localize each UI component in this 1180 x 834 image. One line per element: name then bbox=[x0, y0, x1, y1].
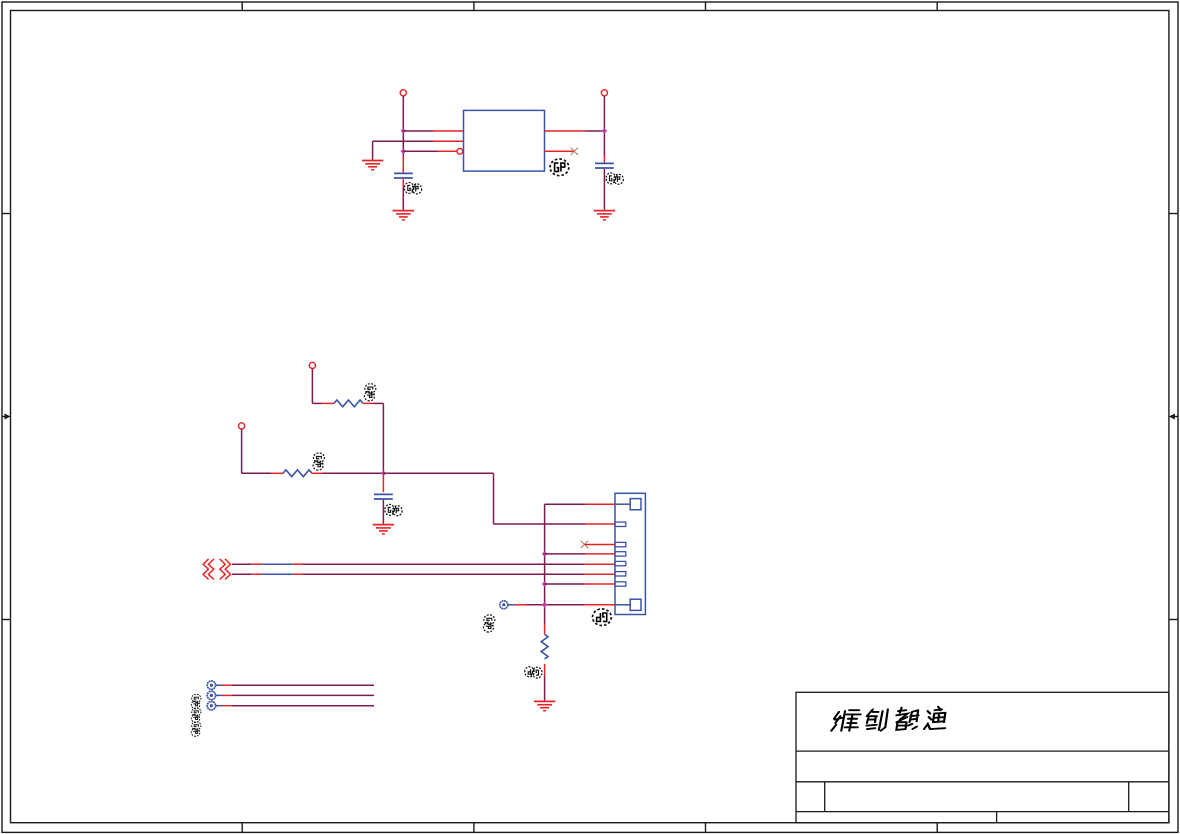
connector J1 bottom mounting pin bbox=[615, 599, 641, 610]
G/P marker of R1 bbox=[364, 384, 375, 401]
ground bbox=[373, 525, 394, 534]
test point TP3 bbox=[207, 702, 215, 710]
inverting pin bubble bbox=[457, 148, 463, 154]
GP marker of J1 (rotated) bbox=[593, 609, 612, 626]
capacitor C1 bbox=[394, 173, 413, 178]
company name text (CJK strokes) bbox=[831, 707, 948, 731]
G/P marker of TP4 bbox=[483, 615, 494, 632]
ground bbox=[393, 211, 414, 220]
wire: TP1 net bbox=[216, 684, 374, 686]
test point TP2 bbox=[207, 691, 215, 699]
wire: R1 input drop bbox=[311, 369, 313, 404]
wire: C3 lower lead bbox=[382, 500, 384, 524]
wire: nc pin stub bbox=[584, 544, 615, 546]
wire: C1 lower lead bbox=[402, 179, 404, 210]
G/P marker of C1 bbox=[404, 182, 421, 193]
G/P marker of C3 bbox=[385, 504, 402, 515]
ground bbox=[362, 161, 383, 170]
connector J1 body bbox=[615, 493, 645, 614]
test point TP4 bbox=[500, 601, 508, 609]
G/P marker of TP2 bbox=[191, 708, 201, 723]
off-page connector chevrons bbox=[203, 559, 230, 580]
junction node bbox=[542, 581, 548, 587]
junction node bbox=[401, 149, 407, 155]
connector J1 top mounting pin bbox=[615, 499, 641, 510]
wire: U1 output to right rail bbox=[545, 130, 605, 132]
power terminal circle (R1 input) bbox=[309, 362, 315, 368]
junction node bbox=[542, 551, 548, 557]
wire: R1 right lead down bbox=[363, 403, 383, 473]
wire: bottom pin net bbox=[508, 604, 616, 606]
ground bbox=[534, 701, 555, 710]
GP marker of U1 bbox=[550, 159, 569, 176]
wire: R2 input drop bbox=[241, 429, 243, 473]
G/P marker of TP3 bbox=[191, 722, 201, 737]
capacitor C3 bbox=[374, 494, 393, 499]
wire: TP2 net bbox=[216, 694, 374, 696]
capacitor C3 upper lead bbox=[382, 475, 384, 492]
wire: node to connector run bbox=[383, 473, 615, 524]
test point TP1 bbox=[207, 681, 215, 689]
capacitor C2 bbox=[595, 163, 614, 168]
wire: R2 right lead to node bbox=[312, 472, 383, 474]
junction node bbox=[542, 602, 548, 608]
wire: TP3 net bbox=[216, 705, 374, 707]
wire: pin3 stub bbox=[545, 553, 615, 555]
wire: pin6 stub bbox=[545, 583, 615, 585]
wire: U1 second output stub bbox=[545, 150, 575, 152]
power terminal circle (right) bbox=[601, 90, 607, 96]
no-connect X bbox=[571, 148, 578, 155]
wire: R3 upper lead bbox=[544, 624, 546, 635]
resistor R3 bbox=[541, 634, 548, 659]
resistor R1 bbox=[334, 400, 363, 407]
G/P marker of TP1 bbox=[191, 694, 201, 709]
wire: pin2 of U1 to ground branch bbox=[373, 141, 464, 159]
wire: top pin net bbox=[545, 504, 615, 623]
G/P marker of R3 (rotated) bbox=[525, 667, 542, 678]
wire: R1 left lead bbox=[312, 402, 334, 404]
G/P marker of R2 bbox=[313, 453, 324, 470]
wire: long net to connector pin5 bbox=[232, 573, 615, 575]
junction node bbox=[401, 128, 407, 134]
wire: R3 lower lead bbox=[544, 664, 546, 701]
connector J1 pin boxes bbox=[615, 522, 626, 586]
wire: pin1 of U1 bbox=[403, 130, 463, 132]
wire: left vertical rail bbox=[402, 96, 404, 173]
wire: right vertical rail bbox=[603, 96, 605, 163]
power terminal circle (R2 input) bbox=[239, 423, 245, 429]
wire: long net to connector pin4 bbox=[232, 563, 615, 565]
junction node bbox=[381, 471, 387, 477]
title block bbox=[796, 692, 1169, 822]
resistor R2 bbox=[283, 470, 312, 477]
wire: pin3 of U1 (inverted) bbox=[403, 150, 457, 152]
junction node bbox=[602, 128, 608, 134]
wire: C2 lower lead bbox=[603, 169, 605, 210]
no-connect X on pin stub bbox=[581, 541, 588, 548]
power terminal circle (left) bbox=[400, 90, 406, 96]
wire: R2 left lead bbox=[242, 472, 283, 474]
IC U1 body bbox=[464, 110, 545, 171]
G/P marker of C2 bbox=[606, 173, 623, 184]
ground bbox=[594, 211, 615, 220]
